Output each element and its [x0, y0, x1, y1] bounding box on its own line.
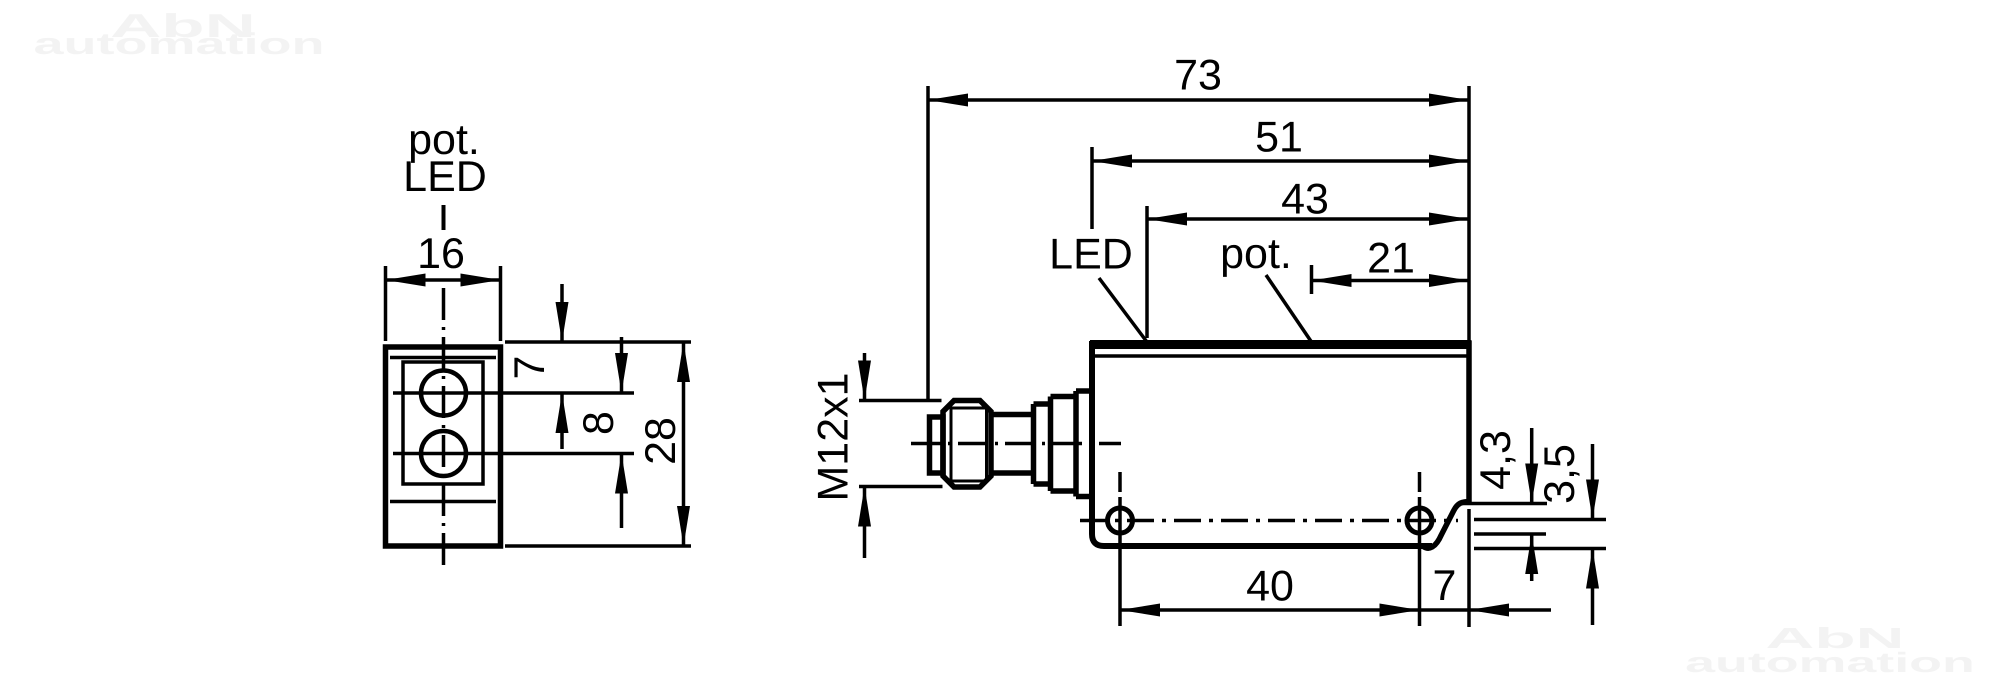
svg-text:40: 40: [1246, 563, 1294, 611]
svg-text:pot.: pot.: [1220, 230, 1292, 278]
svg-text:21: 21: [1367, 235, 1415, 283]
svg-text:4,3: 4,3: [1472, 430, 1520, 490]
svg-text:8: 8: [575, 411, 623, 435]
svg-text:LED: LED: [403, 153, 487, 201]
svg-text:28: 28: [637, 417, 685, 465]
svg-text:LED: LED: [1049, 231, 1133, 279]
svg-text:M12x1: M12x1: [810, 372, 858, 501]
svg-text:automation: automation: [1685, 647, 1975, 678]
svg-text:73: 73: [1174, 52, 1222, 100]
svg-text:7: 7: [506, 356, 554, 380]
svg-text:51: 51: [1255, 114, 1303, 162]
svg-text:automation: automation: [33, 28, 324, 61]
svg-text:3,5: 3,5: [1536, 444, 1584, 504]
svg-text:16: 16: [417, 230, 465, 278]
svg-text:43: 43: [1281, 176, 1329, 224]
svg-text:7: 7: [1433, 562, 1457, 610]
